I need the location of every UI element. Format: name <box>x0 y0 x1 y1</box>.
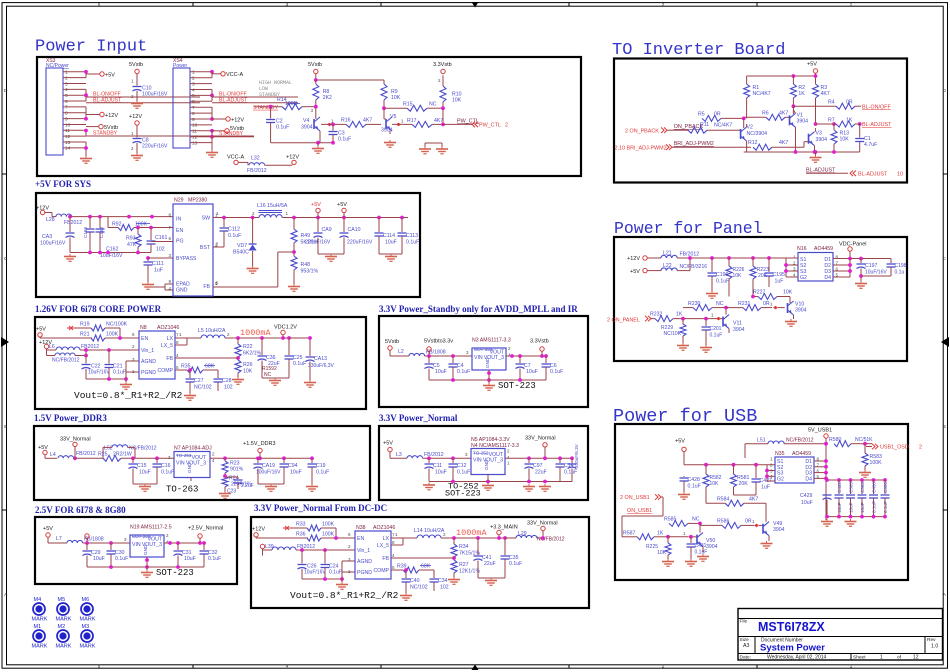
svg-text:0R: 0R <box>846 100 853 106</box>
svg-text:4K7: 4K7 <box>821 91 830 97</box>
svg-text:C163: C163 <box>83 227 88 238</box>
svg-text:C550: C550 <box>883 482 888 493</box>
resistor R14 <box>254 97 315 110</box>
power output +2.5V_Normal <box>188 526 223 544</box>
capacitor C161 <box>147 226 168 253</box>
capacitor C112 <box>213 218 241 248</box>
svg-text:BYPASS: BYPASS <box>176 256 197 262</box>
svg-text:2R2/1W: 2R2/1W <box>113 451 132 457</box>
svg-text:PG: PG <box>176 239 184 245</box>
svg-text:GND: GND <box>143 544 148 555</box>
svg-text:220uF/16V: 220uF/16V <box>142 144 168 150</box>
svg-text:7: 7 <box>65 105 68 111</box>
power +1.5V_DDR3 <box>243 441 276 459</box>
svg-text:C161: C161 <box>155 235 168 241</box>
capacitor CA19 ddr3 <box>254 458 282 484</box>
resistor R2 <box>790 84 805 106</box>
svg-text:Vout=0.8*_R1+R2_/R2: Vout=0.8*_R1+R2_/R2 <box>74 390 183 401</box>
resistor R16 <box>341 118 381 128</box>
fiducial M3 <box>80 624 96 650</box>
svg-text:C97: C97 <box>533 463 543 469</box>
svg-text:R5: R5 <box>698 112 705 118</box>
svg-text:GND: GND <box>485 357 490 368</box>
svg-text:+3.3_MAIN: +3.3_MAIN <box>490 525 518 531</box>
svg-text:TO Inverter Board: TO Inverter Board <box>612 41 785 60</box>
capacitor C27 <box>184 368 212 400</box>
svg-text:NC: NC <box>264 372 272 378</box>
net BL-ADJUST at XS3 <box>86 97 200 103</box>
ground below V49 <box>761 541 773 548</box>
header 3.3V Power_Normal <box>379 413 458 423</box>
svg-text:5Vstb: 5Vstb <box>385 339 399 345</box>
svg-text:+5V: +5V <box>105 72 115 78</box>
svg-text:10uF/16V: 10uF/16V <box>88 370 110 376</box>
junction output rail core <box>236 336 291 340</box>
svg-text:C12: C12 <box>457 463 467 469</box>
svg-text:20K: 20K <box>739 481 749 487</box>
svg-text:+12V: +12V <box>105 113 118 119</box>
net BL-ON/OFF inverter <box>862 104 891 110</box>
svg-text:C27: C27 <box>194 378 204 384</box>
wire LX out core <box>175 332 201 345</box>
title block Size A3 <box>740 637 750 649</box>
capacitor C21 <box>105 348 126 379</box>
power +5V usb <box>675 439 686 465</box>
power input1 dcdc <box>252 527 308 539</box>
svg-text:VCC-A: VCC-A <box>227 154 244 160</box>
svg-text:M1: M1 <box>34 624 42 630</box>
capacitor C113 <box>398 218 420 255</box>
svg-text:CA3: CA3 <box>42 234 52 240</box>
svg-text:10: 10 <box>192 123 198 129</box>
svg-text:L4: L4 <box>50 452 56 458</box>
svg-text:0.1u: 0.1u <box>895 270 905 276</box>
svg-text:M6: M6 <box>82 597 90 603</box>
IC N7 AP1084-ADJ <box>168 446 215 478</box>
net BL-ADJUST bottom <box>806 168 848 174</box>
wire output +2.5V_Normal <box>164 541 206 545</box>
svg-text:R10: R10 <box>452 91 462 97</box>
package label SOT-223 <box>156 568 194 578</box>
svg-text:+5V: +5V <box>675 439 685 445</box>
svg-text:0R: 0R <box>714 112 721 118</box>
svg-text:NC/4K7: NC/4K7 <box>753 91 771 97</box>
box 1.5V Power_DDR3 <box>34 426 370 500</box>
power net 5Vstb at XS4 <box>212 126 244 133</box>
svg-text:NC/FB/2012: NC/FB/2012 <box>52 358 80 364</box>
svg-text:LX_5: LX_5 <box>377 543 389 549</box>
capacitor C565 bank <box>846 480 855 517</box>
svg-text:3: 3 <box>192 81 195 87</box>
svg-text:1.26V FOR 6i78 CORE POWER: 1.26V FOR 6i78 CORE POWER <box>35 304 162 314</box>
svg-text:13: 13 <box>65 140 71 146</box>
resistor R231 <box>726 297 785 311</box>
title block System Power <box>760 643 825 654</box>
power input2 dcdc <box>260 544 264 555</box>
svg-text:VDC-Panel: VDC-Panel <box>839 242 867 248</box>
svg-text:1000mA: 1000mA <box>240 328 272 338</box>
svg-text:FB/2012: FB/2012 <box>247 168 267 174</box>
transistor V11 <box>706 308 745 333</box>
svg-text:File: File <box>740 619 748 625</box>
svg-text:8: 8 <box>65 111 68 117</box>
wire usb input rail <box>684 463 775 476</box>
transistor V2 <box>741 124 767 152</box>
junction R10/R17 <box>441 123 445 127</box>
svg-text:100K: 100K <box>322 532 335 538</box>
capacitor C24 <box>321 548 342 579</box>
svg-text:2: 2 <box>192 76 195 82</box>
net STANDBY at XS4 <box>212 131 254 137</box>
junction R1 bottom / R5R6 <box>742 117 746 121</box>
svg-text:1: 1 <box>65 70 68 76</box>
header 3.3V Power_Standby only for AVDD_MPLL and IR <box>379 304 578 314</box>
svg-text:CA19: CA19 <box>262 463 275 469</box>
svg-text:10uF/16V: 10uF/16V <box>865 270 887 276</box>
svg-text:3.3Vstb: 3.3Vstb <box>530 339 549 345</box>
transistor V50 <box>691 523 718 552</box>
svg-text:N16: N16 <box>797 246 807 252</box>
ground below C111 <box>142 282 154 289</box>
power +5V inverter <box>807 62 818 84</box>
svg-text:47K: 47K <box>127 242 137 248</box>
svg-text:10uF: 10uF <box>290 470 302 476</box>
junction R49/R48 feedback <box>292 250 296 254</box>
svg-text:NC: NC <box>692 517 700 523</box>
svg-text:2 ON_PANEL: 2 ON_PANEL <box>607 318 640 324</box>
svg-text:1uF: 1uF <box>761 485 770 491</box>
svg-text:+12V: +12V <box>627 256 640 262</box>
svg-text:M3: M3 <box>82 624 90 630</box>
formula Vout dcdc <box>290 590 399 601</box>
svg-text:VIN: VIN <box>176 461 185 467</box>
power +5V panel <box>630 268 661 274</box>
IC N16 AO4459 <box>793 246 839 281</box>
ground output caps dcdc <box>478 578 505 585</box>
capacitor C28 <box>214 370 233 391</box>
svg-text:TO-263: TO-263 <box>166 485 198 495</box>
junctions panel input rail <box>688 256 771 260</box>
svg-text:R49: R49 <box>301 233 311 239</box>
svg-text:5Vstb: 5Vstb <box>308 62 322 68</box>
resistor R583 <box>859 442 882 477</box>
capacitor C162 labels <box>100 247 123 260</box>
svg-text:MST6I78ZX: MST6I78ZX <box>758 620 825 634</box>
svg-text:10: 10 <box>65 122 71 128</box>
svg-text:FB: FB <box>203 284 210 290</box>
inductor L2 <box>398 349 472 356</box>
wire V4 out to R16 <box>321 123 346 127</box>
svg-text:B: B <box>943 424 946 429</box>
svg-text:C565: C565 <box>849 482 854 493</box>
svg-text:1000mA: 1000mA <box>456 528 488 538</box>
inductor L3 normal33 <box>396 452 471 459</box>
svg-text:R4: R4 <box>828 100 835 106</box>
svg-text:BL-ADJUST: BL-ADJUST <box>806 168 836 174</box>
svg-text:MARK: MARK <box>32 644 48 650</box>
wire GND pin ddr3 <box>191 478 225 482</box>
svg-text:MARK: MARK <box>56 617 72 623</box>
IC N8 AOZ1046 <box>132 325 179 379</box>
svg-text:3904: 3904 <box>797 119 809 125</box>
capacitor C32 <box>200 543 222 567</box>
svg-text:VIN: VIN <box>473 458 482 464</box>
box +5V FOR SYS <box>36 193 420 297</box>
junction caps normal33 <box>427 456 455 460</box>
inductor L39 <box>263 544 356 550</box>
junction input caps C29 <box>85 541 113 545</box>
capacitor C2 <box>266 107 289 143</box>
title Power for USB <box>613 406 757 427</box>
power input1 core <box>36 327 92 339</box>
svg-text:Vin_1: Vin_1 <box>357 548 370 554</box>
svg-text:+5V: +5V <box>383 441 393 447</box>
usb cap bank top rail <box>825 478 887 482</box>
capacitor C195 <box>753 258 785 287</box>
resistor R48 <box>291 256 318 284</box>
svg-text:MARK: MARK <box>80 644 96 650</box>
svg-text:4: 4 <box>192 87 195 93</box>
capacitor C432 bank <box>835 480 844 517</box>
inductor L6 NC alt <box>47 348 88 363</box>
svg-text:FB2012: FB2012 <box>297 544 315 550</box>
capacitor C1 <box>855 124 877 152</box>
svg-text:Wednesday, April 02, 2014: Wednesday, April 02, 2014 <box>767 654 827 660</box>
capacitor CA10 <box>340 218 373 255</box>
capacitor C36 <box>258 338 280 378</box>
svg-text:NC/10K: NC/10K <box>663 331 681 337</box>
box 3.3V Power_Standby <box>379 316 588 407</box>
svg-text:0.1uF: 0.1uF <box>208 556 221 562</box>
svg-text:1K: 1K <box>657 531 664 537</box>
svg-text:+12V: +12V <box>231 117 244 123</box>
svg-text:6: 6 <box>192 99 195 105</box>
svg-text:10K: 10K <box>452 98 462 104</box>
ground below C10 <box>131 101 143 108</box>
power +5V red on rail <box>311 202 321 218</box>
resistor R584 <box>706 496 766 521</box>
svg-text:VD7: VD7 <box>237 243 247 249</box>
capacitor C30 <box>107 543 129 567</box>
capacitor C431 <box>685 535 707 566</box>
ground below V50 <box>697 554 709 561</box>
title Power Input <box>35 38 147 57</box>
svg-text:C201: C201 <box>710 326 722 332</box>
ground rail normal33 <box>423 475 572 492</box>
power 3.3Vstb <box>433 62 452 74</box>
svg-text:2 ON_PBACK: 2 ON_PBACK <box>625 128 659 134</box>
junction BL-ADJUST rail <box>814 122 862 126</box>
ground below R48 <box>288 284 300 291</box>
resistor R92 <box>108 217 173 231</box>
frame row letters <box>4 88 947 597</box>
port BL-ADJUST out <box>850 171 903 178</box>
fiducial M4 <box>32 597 48 623</box>
svg-text:102: 102 <box>156 247 165 253</box>
svg-text:1K: 1K <box>798 91 805 97</box>
pin1 marker V11 <box>711 313 721 321</box>
ground out caps ddr3 <box>258 484 318 491</box>
svg-text:BL-ADJUST: BL-ADJUST <box>858 172 888 178</box>
svg-text:D4: D4 <box>824 275 831 281</box>
svg-text:N19 AMS1117-2.5: N19 AMS1117-2.5 <box>130 525 172 531</box>
svg-text:AGND: AGND <box>357 559 372 565</box>
svg-text:ON_PBACK: ON_PBACK <box>674 124 704 130</box>
svg-text:11: 11 <box>192 129 197 135</box>
svg-text:V1: V1 <box>797 113 803 119</box>
resistor R586 <box>700 519 763 529</box>
svg-text:CA13: CA13 <box>314 356 327 362</box>
resistor R585 <box>663 517 700 527</box>
svg-text:10K: 10K <box>783 290 793 296</box>
svg-text:C195: C195 <box>773 272 786 278</box>
package TO-252 SOT-223 labels <box>445 482 481 499</box>
resistor R21 <box>80 332 139 342</box>
svg-text:0.1uF: 0.1uF <box>695 550 708 556</box>
resistor R3 <box>813 84 830 124</box>
svg-text:330uF/6.3V: 330uF/6.3V <box>308 363 335 369</box>
svg-text:C28: C28 <box>222 378 232 384</box>
power 5Vstb top of R8 <box>308 62 322 80</box>
capacitor CA18 normal33 <box>568 443 580 481</box>
junction R2 bottom <box>792 104 796 108</box>
svg-text:0.1uF: 0.1uF <box>457 470 470 476</box>
resistor R1 <box>744 84 771 118</box>
svg-text:+5V: +5V <box>807 62 817 68</box>
resistor R587 <box>622 531 668 540</box>
svg-text:AO4459: AO4459 <box>814 246 833 252</box>
svg-text:4K7: 4K7 <box>779 140 788 146</box>
svg-text:SOT-223: SOT-223 <box>156 568 194 578</box>
junction FB divider dcdc <box>452 556 456 560</box>
svg-text:3904: 3904 <box>301 124 313 130</box>
capacitor C10 <box>131 79 168 102</box>
svg-text:ON_USB1: ON_USB1 <box>627 508 652 514</box>
svg-text:+5V: +5V <box>337 202 347 208</box>
formula Vout core <box>74 390 183 401</box>
svg-text:R2: R2 <box>798 85 805 91</box>
IC N29 MP2380 <box>169 198 219 297</box>
svg-text:100K: 100K <box>106 332 119 338</box>
inductor L29 NC to 33V_Normal <box>505 531 565 543</box>
svg-text:C16: C16 <box>161 463 171 469</box>
svg-text:6: 6 <box>65 99 68 105</box>
svg-text:5Vstbto3.3v: 5Vstbto3.3v <box>424 339 453 345</box>
svg-text:MARK: MARK <box>56 644 72 650</box>
capacitor C26 <box>298 550 327 579</box>
nc marker R19 <box>67 326 75 330</box>
junction R229 <box>681 317 685 321</box>
resistor R12 <box>748 140 809 150</box>
svg-text:C1: C1 <box>864 136 871 142</box>
junction output rail dcdc <box>452 536 507 540</box>
svg-text:10uF: 10uF <box>801 500 813 506</box>
capacitor C12 normal33 <box>449 458 471 481</box>
ground pair lower right <box>419 143 448 154</box>
svg-text:NC/FB/2012: NC/FB/2012 <box>129 446 157 452</box>
svg-text:R584: R584 <box>717 496 730 502</box>
IC N35 AO4459 <box>770 451 820 483</box>
svg-text:10uF: 10uF <box>93 556 105 562</box>
svg-text:220uF/16V: 220uF/16V <box>347 240 373 246</box>
svg-text:R6: R6 <box>762 111 769 117</box>
title block frame <box>738 609 943 661</box>
capacitor CA3 <box>40 217 75 253</box>
capacitor C429 <box>800 478 832 516</box>
resistor R5 <box>698 112 744 122</box>
wire R1 vertical to V2 <box>743 118 745 128</box>
power mid 5Vstbto3.3v <box>424 339 453 357</box>
XS4 bus verticals <box>211 72 213 149</box>
fiducial M2 <box>56 624 72 650</box>
svg-text:M5: M5 <box>58 597 66 603</box>
svg-text:G2: G2 <box>800 275 807 281</box>
capacitor C427 <box>734 465 773 495</box>
inductor L28 <box>46 214 173 226</box>
ground below VD7 <box>247 266 259 273</box>
net ON_USB1 label <box>622 508 663 537</box>
resistor R27 <box>448 560 480 584</box>
capacitor C15 ddr3 <box>129 458 151 484</box>
resistor R582 <box>703 465 722 504</box>
capacitor CA9 <box>305 218 332 255</box>
ground below XS4 <box>206 149 218 158</box>
svg-text:M4: M4 <box>34 597 42 603</box>
title block File label <box>740 619 748 625</box>
port ON_USB1 <box>620 494 663 514</box>
resistor R232 <box>650 312 723 322</box>
svg-text:+12V: +12V <box>286 154 299 160</box>
svg-text:C94: C94 <box>288 463 298 469</box>
port PW_CTL <box>472 122 508 129</box>
wire EPAD GND down <box>149 284 173 290</box>
inductor L14 10uH/2A <box>414 528 505 538</box>
IC N38 AOZ1046 <box>348 525 395 579</box>
resistor R229 <box>661 319 689 351</box>
resistor R22 <box>235 338 262 360</box>
resistor R4 <box>793 100 861 110</box>
svg-text:953/1%: 953/1% <box>301 269 319 275</box>
svg-text:1: 1 <box>880 654 883 660</box>
power 5Vstb above C10 <box>129 62 143 86</box>
capacitor C23 ddr3 <box>225 477 254 495</box>
resistor R24 ddr3 <box>219 474 252 498</box>
svg-text:GND: GND <box>176 288 188 294</box>
svg-text:2: 2 <box>65 75 68 81</box>
capacitor C198 <box>861 259 907 277</box>
resistor R93 <box>126 226 141 253</box>
svg-text:0.1uF: 0.1uF <box>316 470 329 476</box>
svg-text:PGND: PGND <box>357 570 372 576</box>
svg-text:10uF/16V: 10uF/16V <box>100 253 123 259</box>
junction R225 top <box>666 535 670 539</box>
XS3 pin wires <box>63 72 86 148</box>
nc marker R33 <box>283 526 291 530</box>
pin1 marker at V4 collector out <box>327 119 334 127</box>
port BRI_ADJ-PWM2 <box>615 144 674 151</box>
capacitor C6 <box>542 356 564 380</box>
svg-text:1uF: 1uF <box>775 279 784 285</box>
capacitor C14 normal33 <box>556 458 578 481</box>
junction FB divider core <box>236 356 240 360</box>
svg-text:C197: C197 <box>865 263 878 269</box>
resistor R11 <box>672 122 741 133</box>
svg-text:10K: 10K <box>657 550 667 556</box>
svg-text:C432: C432 <box>837 482 842 493</box>
wire LX out dcdc <box>391 532 417 545</box>
power 33V_Normal normal33 <box>525 435 556 458</box>
svg-text:L3: L3 <box>396 452 402 458</box>
